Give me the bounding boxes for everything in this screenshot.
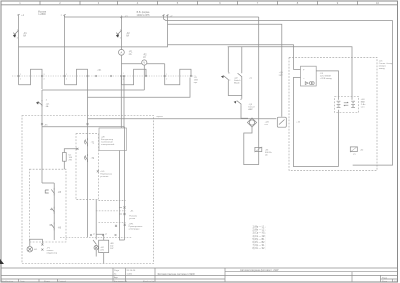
- svg-text:+Щ1: +Щ1: [97, 70, 102, 72]
- resistor R5: [63, 153, 67, 162]
- svg-text:6) Рn — B2 ;: 6) Рn — B2 ;: [253, 242, 267, 244]
- wire Q2 to Q: [228, 81, 242, 96]
- lamp bracket wire: [30, 239, 43, 246]
- svg-text:7) Хp — S1 ;: 7) Хp — S1 ;: [253, 245, 267, 247]
- svg-text:АВР: АВР: [248, 108, 253, 111]
- svg-text:+Q: +Q: [249, 77, 252, 79]
- svg-text:Modification: Modification: [2, 280, 14, 283]
- svg-text:1000/1-ОП5: 1000/1-ОП5: [136, 14, 150, 17]
- connector X1: [119, 207, 126, 216]
- top tick strip line: [1, 4, 398, 6]
- wire Q5 down: [241, 78, 243, 99]
- switch Q3: [234, 99, 241, 106]
- wire loop1: [244, 127, 259, 165]
- inverter minus wire: [293, 78, 338, 167]
- row terminal pin labels: [20, 73, 167, 81]
- svg-text:1: 1: [66, 74, 67, 76]
- svg-text:6A: 6A: [23, 35, 26, 38]
- svg-text:индикатор: индикатор: [47, 252, 58, 254]
- wire battery right leg: [338, 110, 340, 167]
- svg-text:8) Хn — S2 ;: 8) Хn — S2 ;: [253, 248, 267, 250]
- wire Q5 drop: [241, 47, 243, 72]
- battery exchange arrows: [344, 102, 349, 106]
- bus lower W5: [228, 47, 352, 100]
- lamp terminal marks: [41, 244, 43, 251]
- svg-text:завод: завод: [379, 68, 386, 70]
- ammeter P1: [119, 49, 125, 55]
- wire snake 1: [19, 69, 43, 89]
- resistor R8: [99, 240, 109, 252]
- svg-text:у2: у2: [105, 233, 107, 235]
- controller U8 box: [99, 128, 127, 151]
- terminal X3: [162, 15, 164, 18]
- svg-text:Автоматизирана фотоволт. 2kW: Автоматизирана фотоволт. 2kW: [240, 268, 279, 272]
- battery cell left: [337, 101, 341, 107]
- svg-text:у1: у1: [93, 233, 95, 235]
- svg-text:Equipment of: Equipment of: [114, 280, 127, 283]
- wire snake 4: [165, 64, 191, 85]
- svg-text:Page: Page: [382, 277, 388, 279]
- inner dashed box IB1: [30, 169, 67, 242]
- battery cell right: [351, 101, 355, 107]
- svg-text:2: 2: [123, 79, 124, 81]
- controller feed stubs: [121, 77, 124, 129]
- svg-text:1: 1: [20, 74, 21, 76]
- svg-text:Page: Page: [114, 270, 120, 272]
- terminal X1: [17, 14, 19, 16]
- title block: [1, 268, 398, 282]
- wire R8 bottom: [103, 253, 105, 264]
- row terminals: [18, 75, 192, 77]
- svg-text:Original: Original: [59, 280, 67, 283]
- svg-text:+СКВ завод: +СКВ завод: [320, 78, 333, 80]
- svg-text:щит: щит: [279, 74, 283, 76]
- bus upper W4 right: [168, 45, 301, 70]
- fuse F1: [13, 30, 18, 37]
- inner dashed box IB2: [76, 134, 99, 200]
- junction X2a: [120, 16, 122, 19]
- svg-text:2: 2: [166, 78, 167, 80]
- terminal r9: [77, 148, 79, 150]
- enclosure dashed line: [12, 75, 196, 77]
- wire PV2 down: [64, 16, 66, 85]
- svg-text:3) Сp — N1 ;: 3) Сp — N1 ;: [253, 233, 267, 235]
- svg-text:5) Рp — B1 ;: 5) Рp — B1 ;: [253, 239, 267, 241]
- svg-text:4: 4: [44, 78, 45, 80]
- wire ammeter to row: [121, 55, 123, 85]
- machine symbol M1: [247, 118, 256, 127]
- wire pair controller down: [120, 151, 125, 241]
- wire voltmeter right: [147, 63, 165, 65]
- tick strip labels: [19, 1, 379, 5]
- DC box dashed enclosure: [22, 116, 154, 264]
- jumper label: [97, 170, 99, 172]
- dashed inner lines: [99, 199, 126, 201]
- svg-text:2) Фn — L2 ;: 2) Фn — L2 ;: [253, 229, 266, 232]
- svg-text:1) Фp — L1 ;: 1) Фp — L1 ;: [253, 226, 266, 229]
- inverter out wire: [316, 71, 338, 100]
- contact T2: [85, 154, 88, 162]
- svg-text:A: A: [121, 50, 123, 54]
- svg-text:услов: услов: [129, 218, 136, 220]
- switch K8 lamp chain: [95, 200, 97, 240]
- fuse F2: [116, 30, 121, 37]
- svg-text:4) Сn — N2 ;: 4) Сn — N2 ;: [253, 236, 267, 238]
- svg-text:электронный: электронный: [101, 143, 115, 146]
- contact K6: [50, 222, 55, 230]
- contactor K3 box: [255, 147, 262, 151]
- node PV2 label: [136, 11, 150, 17]
- wire Q3 down: [241, 105, 248, 118]
- svg-text:2: 2: [229, 80, 230, 82]
- wire F2 drop: [121, 17, 123, 50]
- voltmeter P2: [142, 60, 147, 65]
- svg-text:Фотоволтаична система 1,5kW: Фотоволтаична система 1,5kW: [158, 272, 196, 276]
- svg-text:1: 1: [123, 73, 124, 75]
- svg-text:1-2800: 1-2800: [38, 13, 46, 16]
- switch Q5: [238, 72, 243, 78]
- wire P3: [42, 126, 125, 128]
- svg-text:щиток: щиток: [157, 116, 163, 118]
- svg-text:20-10-16: 20-10-16: [127, 270, 137, 272]
- bottom row terminals: [90, 234, 116, 236]
- svg-text:электроды: электроды: [129, 229, 140, 231]
- svg-text:V: V: [143, 61, 145, 65]
- wire P2: [88, 118, 276, 120]
- wire resistor bottom: [63, 161, 65, 169]
- wire snake 2: [65, 69, 88, 237]
- svg-text:2: 2: [20, 78, 21, 80]
- contact T1: [85, 138, 88, 146]
- junction X5: [41, 123, 43, 125]
- svg-text:1: 1: [229, 73, 230, 75]
- svg-text:Blade: Blade: [234, 83, 240, 85]
- contactor K2 box: [350, 147, 357, 152]
- contact chain stem: [42, 183, 54, 240]
- tick separators: [40, 1, 358, 5]
- wire V1: [258, 17, 260, 165]
- wire Q2 drop: [227, 47, 229, 72]
- battery dashed box G8: [335, 96, 359, 112]
- wire voltmeter riser: [143, 65, 145, 90]
- wire Q: [88, 78, 191, 98]
- wire bus W1: [65, 16, 259, 18]
- svg-text:1,000: 1,000: [127, 274, 133, 276]
- switch Q1 on chain: [37, 100, 43, 106]
- svg-text:1: 1: [166, 74, 167, 76]
- contact mid: [50, 207, 55, 214]
- svg-text:пV: пV: [143, 57, 146, 59]
- meter on V3: [277, 117, 286, 127]
- wire R8 top: [96, 234, 104, 240]
- corner triangle mark: [0, 259, 4, 264]
- junction on relay feed: [87, 123, 89, 125]
- svg-text:6A: 6A: [126, 35, 129, 38]
- wire P: [42, 89, 144, 91]
- wire bus W2: [164, 18, 393, 166]
- bus upper W4 left: [19, 45, 168, 47]
- svg-text:пА: пА: [129, 53, 132, 56]
- wire snake 3: [122, 69, 147, 85]
- inverter V5 box: [301, 66, 317, 86]
- svg-text:2: 2: [66, 78, 67, 80]
- wire resistor top: [64, 149, 77, 153]
- wire PV1 down: [18, 16, 20, 85]
- svg-text:Date: Date: [20, 280, 25, 283]
- wire voltmeter left: [121, 63, 141, 65]
- terminal U out: [194, 77, 198, 84]
- test electrodes label: [115, 224, 126, 227]
- svg-text:3: 3: [44, 74, 45, 76]
- contact K5: [45, 188, 54, 196]
- wire left chain: [41, 90, 43, 183]
- terminal X2: [63, 14, 65, 17]
- svg-text:установ: установ: [100, 176, 109, 178]
- node PV1 label: [38, 11, 47, 17]
- svg-text:гнз: гнз: [265, 124, 268, 126]
- terminal X4: [166, 15, 168, 18]
- svg-text:Replace for: Replace for: [143, 280, 154, 283]
- svg-text:Солнечный: Солнечный: [101, 141, 113, 144]
- switch Q2: [222, 72, 229, 81]
- wire bus W3: [168, 18, 282, 117]
- lamp H1: [27, 246, 33, 252]
- big dashed box U5: [289, 57, 377, 170]
